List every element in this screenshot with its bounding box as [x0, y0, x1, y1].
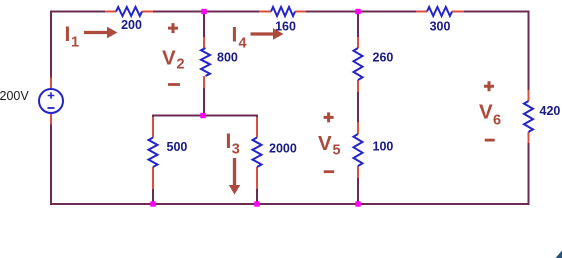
- wire sub-box left bottom: [152, 188, 154, 205]
- svg-text:I: I: [232, 24, 238, 47]
- node E dot: [254, 201, 259, 206]
- lead source top: [50, 78, 52, 89]
- lead R260 bottom: [357, 80, 359, 92]
- svg-text:V: V: [318, 132, 332, 155]
- lead R800 top: [203, 37, 205, 48]
- lead R2000 bottom: [256, 167, 258, 189]
- resistor 420 (vertical right): [524, 101, 533, 132]
- svg-text:100: 100: [373, 140, 394, 154]
- resistor 300 (top right): [427, 7, 452, 16]
- lead R2 right: [295, 11, 306, 13]
- arrow I3 (down): [229, 158, 241, 195]
- lead R2000 top: [256, 117, 258, 138]
- voltage source minus: [48, 107, 55, 109]
- wire sub-box left drop: [152, 115, 154, 119]
- node C dot: [200, 113, 205, 118]
- wire top: R3 to top-right corner: [463, 11, 530, 13]
- voltage source 200V circle: [39, 89, 63, 113]
- lead R420 top: [528, 90, 530, 101]
- node D dot: [150, 201, 155, 206]
- lead R1 right: [142, 11, 153, 13]
- resistor 2000 (vertical): [253, 138, 262, 168]
- wire branch x=204 upper (node A down): [203, 11, 205, 39]
- svg-text:2000: 2000: [269, 142, 297, 156]
- lead R3 left: [416, 11, 427, 13]
- arrow I4: [251, 28, 284, 40]
- plus V6: [484, 81, 494, 91]
- lead R500 top: [152, 117, 154, 138]
- wire left vertical (source branch top): [50, 12, 52, 79]
- svg-text:200V: 200V: [0, 89, 29, 103]
- svg-text:3: 3: [232, 142, 240, 158]
- wire right vertical upper: [528, 11, 530, 92]
- lead R2 left: [259, 11, 271, 13]
- wire branch x=358 lower: [357, 177, 359, 205]
- lead R420 bottom: [528, 132, 530, 143]
- wire right vertical lower: [528, 142, 530, 205]
- wire top: corner to R1 lead: [50, 11, 106, 13]
- wire sub-box right drop: [256, 115, 258, 119]
- svg-text:V: V: [479, 101, 493, 124]
- resistor 800 (vertical): [201, 48, 210, 76]
- svg-text:260: 260: [373, 51, 394, 65]
- minus V5: [324, 170, 335, 173]
- svg-text:I: I: [226, 130, 232, 153]
- node F dot: [355, 201, 360, 206]
- resistor 100 (vertical): [354, 134, 363, 166]
- svg-text:4: 4: [239, 36, 247, 52]
- svg-text:V: V: [162, 47, 176, 70]
- wire top: node A to R2 lead: [203, 11, 260, 13]
- wire left vertical (source branch bottom): [50, 124, 52, 205]
- svg-text:800: 800: [217, 51, 238, 65]
- wire sub-box top rail: [152, 115, 258, 117]
- lead R260 top: [357, 37, 359, 48]
- wire top: R1 to node A: [152, 11, 205, 13]
- voltage source plus: [48, 92, 55, 99]
- wire sub-box right bottom: [256, 188, 258, 205]
- svg-text:I: I: [65, 23, 71, 46]
- wire top: R2 to node B: [305, 11, 359, 13]
- wire bottom rail: [50, 203, 530, 205]
- plus V2: [168, 23, 178, 33]
- lead source bottom: [50, 114, 52, 125]
- wire branch x=358 middle: [357, 91, 359, 123]
- resistor 500 (vertical): [149, 138, 158, 168]
- svg-text:6: 6: [493, 113, 501, 129]
- wire top: node B to R3 lead: [357, 11, 417, 13]
- svg-text:1: 1: [71, 35, 79, 51]
- svg-text:420: 420: [540, 104, 561, 118]
- arrow I1: [84, 27, 118, 39]
- svg-text:500: 500: [167, 140, 188, 154]
- resistor 160 (top middle): [271, 7, 295, 16]
- wire branch x=204 lower (to sub-box): [203, 87, 205, 117]
- resistor 200 (top left): [116, 7, 142, 16]
- lead R500 bottom: [152, 167, 154, 189]
- lead R800 bottom: [203, 76, 205, 88]
- lead R1 left: [105, 11, 116, 13]
- plus V5: [324, 112, 334, 122]
- svg-text:5: 5: [333, 143, 341, 159]
- resistor 260 (vertical): [354, 48, 363, 80]
- svg-text:200: 200: [121, 18, 142, 32]
- minus V6: [485, 139, 495, 142]
- minus V2: [168, 83, 180, 86]
- wire branch x=358 upper: [357, 11, 359, 39]
- node B dot: [355, 9, 360, 14]
- svg-text:2: 2: [177, 57, 185, 73]
- bottom-right blue corner shape: [556, 251, 562, 258]
- lead R100 top: [357, 122, 359, 134]
- lead R3 right: [452, 11, 464, 13]
- node A dot: [201, 9, 206, 14]
- lead R100 bottom: [357, 166, 359, 178]
- svg-text:300: 300: [430, 20, 451, 34]
